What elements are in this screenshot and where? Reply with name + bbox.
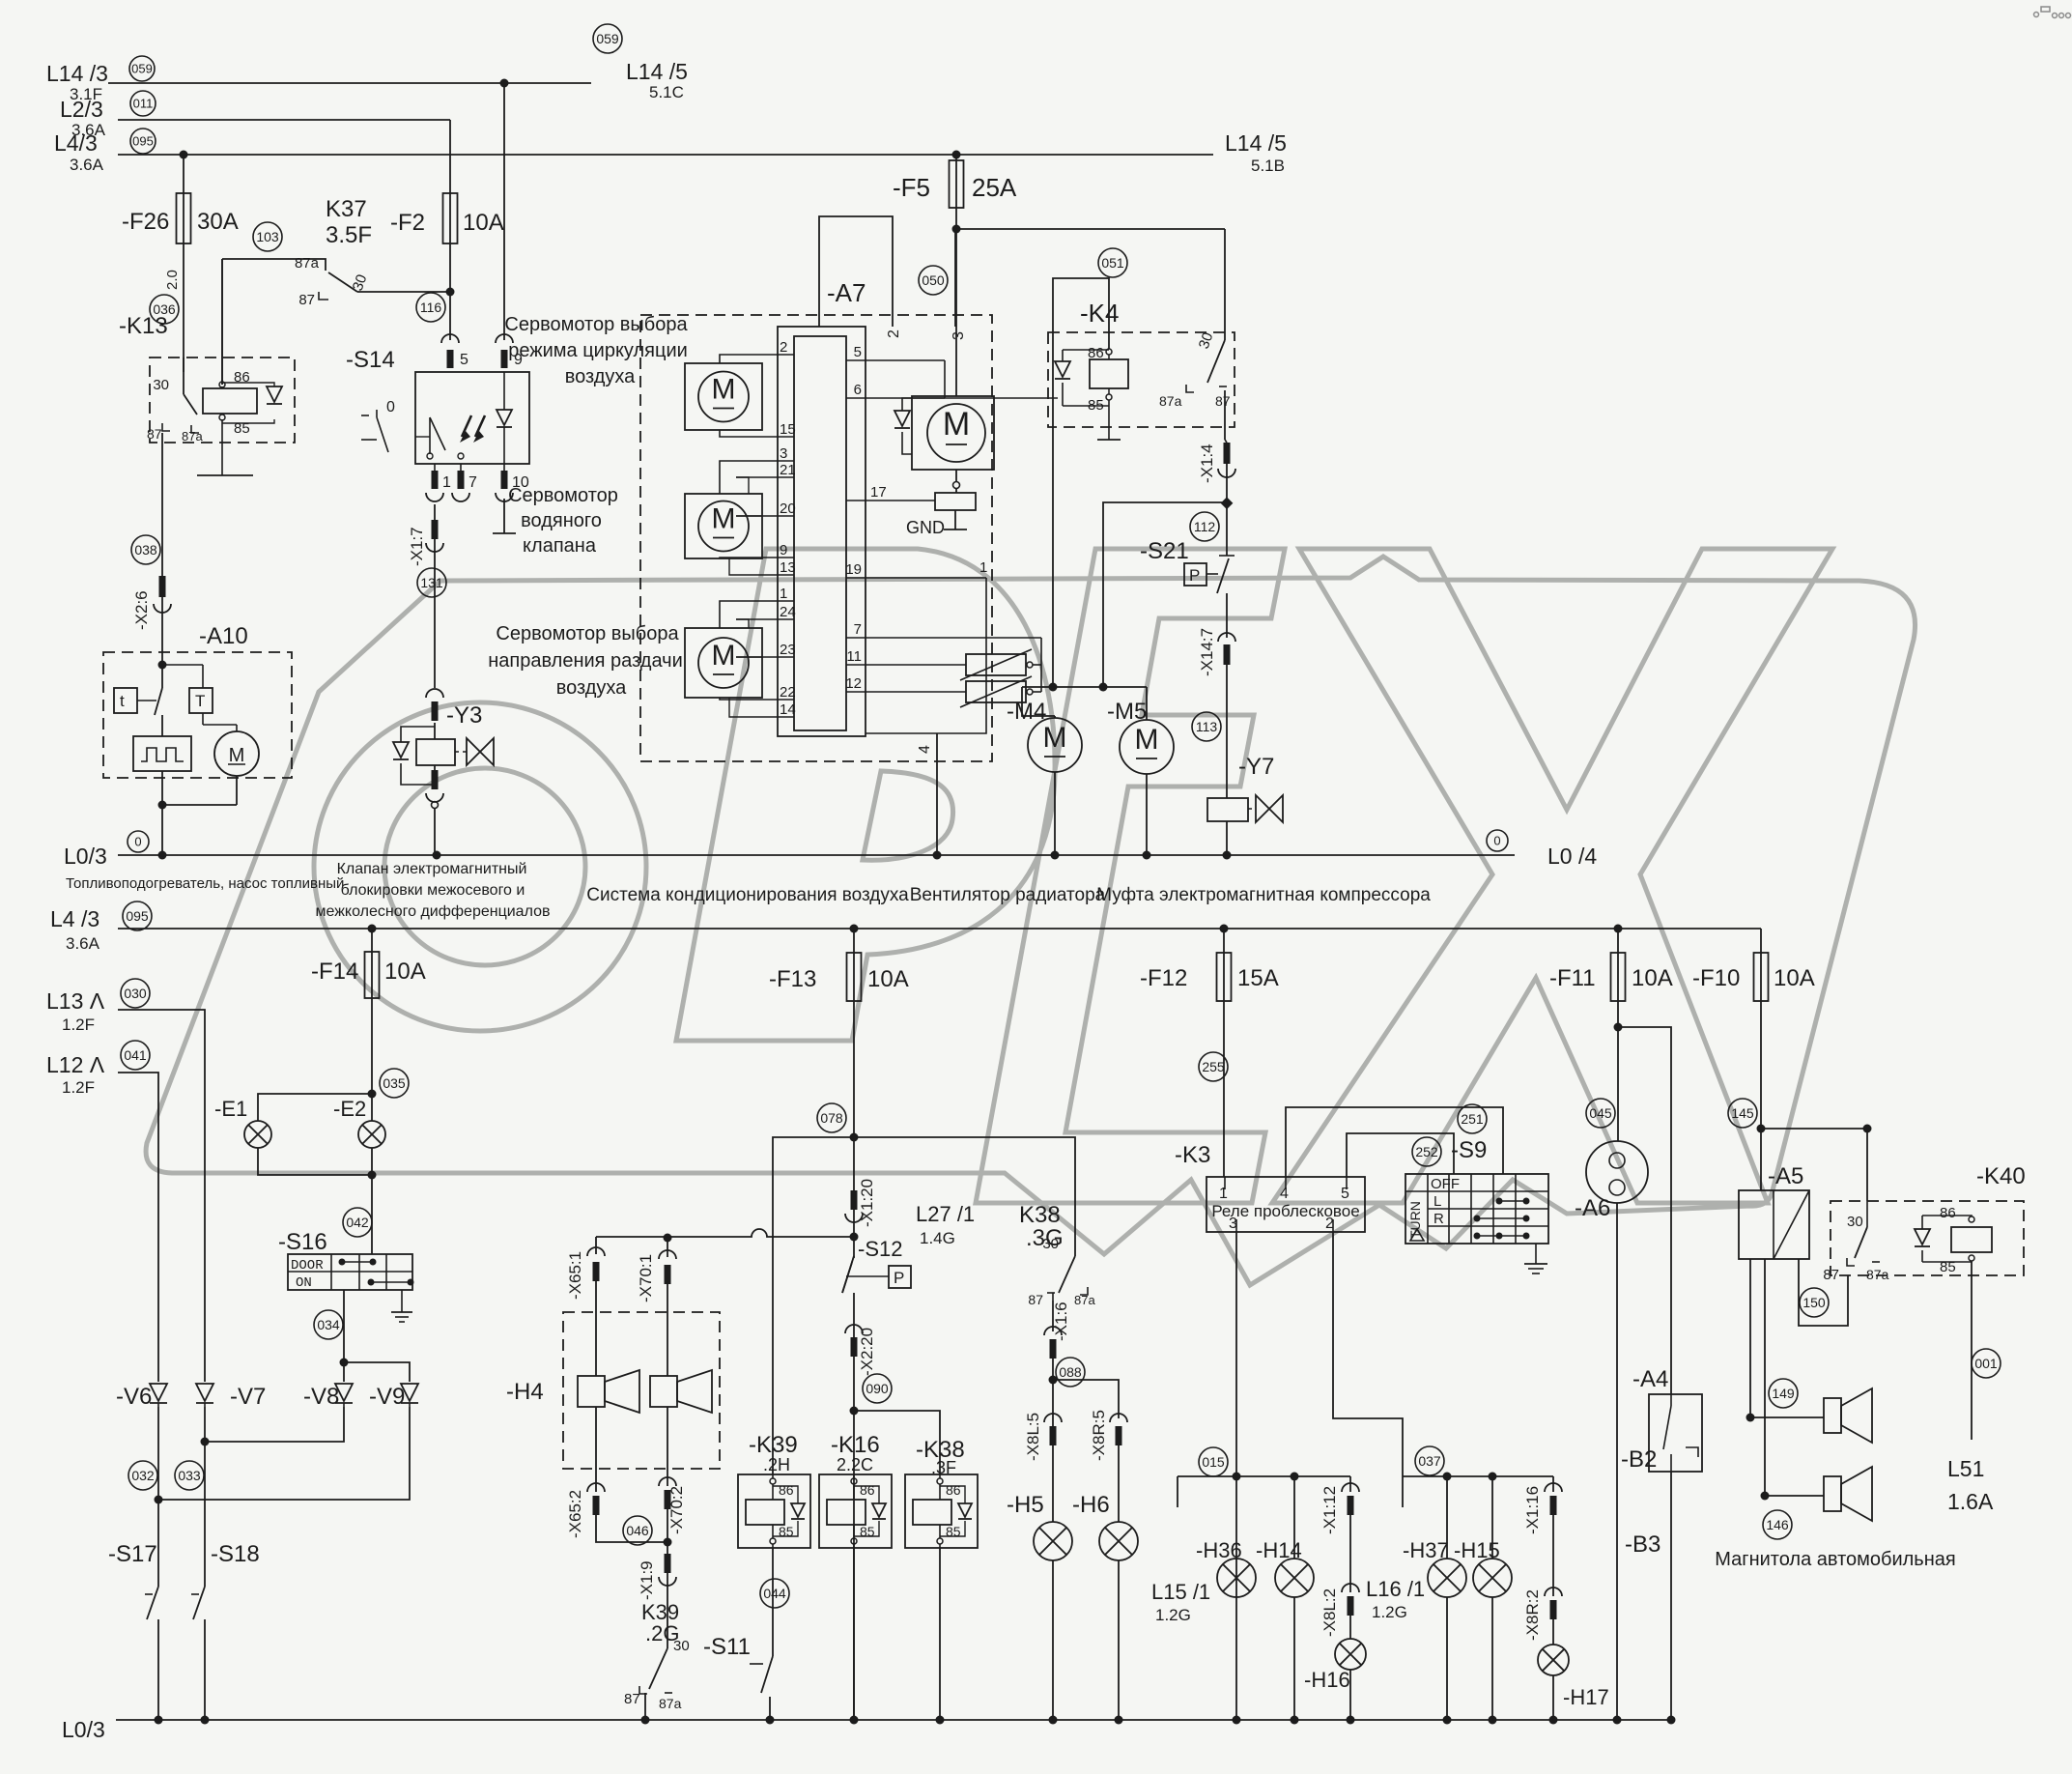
svg-text:L13 Λ: L13 Λ: [46, 988, 105, 1014]
svg-text:R: R: [1433, 1211, 1444, 1227]
svg-text:7: 7: [468, 474, 477, 491]
svg-text:P: P: [894, 1269, 904, 1287]
svg-text:Сервомотор выбора: Сервомотор выбора: [496, 623, 679, 644]
svg-text:.2H: .2H: [763, 1455, 790, 1474]
svg-text:-A10: -A10: [199, 623, 248, 649]
svg-text:-X1:7: -X1:7: [408, 527, 426, 566]
svg-text:K38: K38: [1019, 1202, 1061, 1228]
svg-text:4: 4: [917, 745, 933, 754]
svg-text:-H6: -H6: [1072, 1492, 1110, 1518]
svg-text:045: 045: [1589, 1105, 1612, 1121]
svg-text:-M5: -M5: [1107, 699, 1147, 725]
svg-text:255: 255: [1202, 1059, 1225, 1074]
svg-text:116: 116: [420, 300, 442, 315]
svg-text:095: 095: [126, 908, 149, 924]
svg-text:10A: 10A: [384, 959, 426, 985]
svg-text:-F5: -F5: [893, 173, 930, 202]
svg-text:-X65:1: -X65:1: [566, 1251, 584, 1300]
svg-text:M: M: [1043, 722, 1067, 754]
svg-text:P: P: [1189, 566, 1200, 585]
svg-text:-X65:2: -X65:2: [566, 1490, 584, 1538]
svg-text:4: 4: [1280, 1186, 1289, 1202]
svg-text:1.2G: 1.2G: [1155, 1606, 1191, 1624]
svg-text:-E1: -E1: [214, 1097, 247, 1121]
svg-text:L0/3: L0/3: [64, 844, 107, 869]
svg-text:042: 042: [346, 1215, 369, 1230]
svg-text:87a: 87a: [182, 429, 203, 443]
svg-text:M: M: [712, 374, 736, 406]
svg-text:2.0: 2.0: [164, 270, 181, 290]
svg-text:Клапан электромагнитный: Клапан электромагнитный: [337, 861, 527, 877]
svg-text:87a: 87a: [1074, 1293, 1095, 1307]
svg-text:1.2F: 1.2F: [62, 1016, 95, 1034]
svg-text:059: 059: [596, 31, 619, 46]
svg-text:86: 86: [946, 1482, 961, 1498]
svg-text:87: 87: [624, 1691, 640, 1707]
svg-text:-K39: -K39: [749, 1432, 798, 1458]
svg-text:-X14:7: -X14:7: [1198, 628, 1216, 676]
svg-text:L14 /5: L14 /5: [626, 59, 688, 84]
svg-text:17: 17: [870, 484, 887, 501]
svg-text:030: 030: [124, 986, 147, 1001]
svg-text:015: 015: [1202, 1454, 1225, 1470]
svg-text:L0 /4: L0 /4: [1547, 844, 1597, 869]
svg-text:10A: 10A: [463, 210, 504, 236]
svg-text:Муфта электромагнитная компрес: Муфта электромагнитная компрессора: [1096, 885, 1431, 905]
svg-text:103: 103: [256, 229, 279, 244]
svg-text:-S9: -S9: [1451, 1137, 1487, 1163]
svg-text:251: 251: [1461, 1111, 1484, 1127]
svg-text:L51: L51: [1947, 1456, 1984, 1481]
svg-text:30: 30: [1847, 1214, 1863, 1230]
svg-text:87: 87: [1823, 1267, 1839, 1283]
svg-text:30A: 30A: [197, 209, 239, 235]
svg-text:-X1:12: -X1:12: [1320, 1486, 1339, 1534]
svg-text:19: 19: [845, 561, 862, 578]
svg-text:86: 86: [779, 1482, 794, 1498]
svg-text:5: 5: [854, 344, 862, 360]
svg-text:87: 87: [1028, 1292, 1043, 1307]
svg-text:M: M: [712, 640, 736, 672]
svg-text:033: 033: [178, 1468, 201, 1483]
svg-text:24: 24: [780, 604, 796, 620]
svg-text:-K40: -K40: [1976, 1163, 2026, 1189]
svg-text:11: 11: [846, 648, 862, 665]
svg-text:Вентилятор радиатора: Вентилятор радиатора: [910, 885, 1106, 905]
svg-text:L0/3: L0/3: [62, 1717, 105, 1742]
svg-text:21: 21: [780, 462, 796, 478]
svg-text:-X1:9: -X1:9: [638, 1560, 656, 1600]
svg-text:1: 1: [979, 559, 987, 576]
svg-text:L14 /3: L14 /3: [46, 61, 108, 86]
svg-text:-H16: -H16: [1304, 1668, 1350, 1692]
svg-text:-K16: -K16: [831, 1432, 880, 1458]
svg-text:Топливоподогреватель, насос то: Топливоподогреватель, насос топливный: [66, 875, 344, 892]
svg-text:85: 85: [1088, 397, 1104, 414]
svg-text:86: 86: [1940, 1205, 1956, 1221]
svg-text:15A: 15A: [1237, 965, 1279, 991]
svg-text:-X8R:5: -X8R:5: [1090, 1410, 1108, 1461]
svg-text:-S12: -S12: [858, 1237, 902, 1261]
svg-text:037: 037: [1418, 1453, 1441, 1469]
svg-text:-X2:6: -X2:6: [132, 590, 151, 630]
svg-text:ON: ON: [296, 1275, 312, 1291]
svg-text:L: L: [1433, 1193, 1441, 1210]
svg-text:149: 149: [1772, 1386, 1795, 1401]
svg-text:-H17: -H17: [1563, 1685, 1609, 1709]
svg-text:034: 034: [317, 1317, 340, 1332]
svg-text:095: 095: [132, 134, 154, 149]
svg-text:-H37: -H37: [1403, 1538, 1449, 1562]
svg-text:M: M: [712, 503, 736, 535]
svg-text:051: 051: [1101, 255, 1124, 271]
svg-text:5: 5: [460, 352, 468, 368]
svg-text:-H5: -H5: [1007, 1492, 1044, 1518]
svg-text:клапана: клапана: [523, 535, 597, 557]
svg-text:7: 7: [854, 621, 862, 638]
svg-text:-F12: -F12: [1140, 965, 1187, 991]
svg-text:3: 3: [951, 331, 967, 340]
svg-text:-H4: -H4: [506, 1379, 544, 1405]
svg-text:0: 0: [386, 399, 395, 415]
svg-text:-V8: -V8: [303, 1384, 339, 1410]
svg-text:0: 0: [1493, 834, 1500, 848]
svg-text:направления раздачи: направления раздачи: [488, 650, 683, 672]
svg-text:87a: 87a: [659, 1696, 682, 1711]
svg-text:-X2:20: -X2:20: [858, 1328, 876, 1376]
svg-text:3.6A: 3.6A: [70, 156, 104, 174]
svg-text:6: 6: [854, 382, 862, 398]
svg-text:водяного: водяного: [521, 510, 602, 531]
svg-text:T: T: [195, 692, 205, 710]
svg-text:.3F: .3F: [931, 1458, 956, 1477]
svg-text:87: 87: [1215, 393, 1231, 409]
svg-text:-S16: -S16: [278, 1229, 327, 1255]
svg-text:046: 046: [626, 1523, 649, 1538]
svg-text:9: 9: [780, 542, 787, 558]
svg-text:-F2: -F2: [390, 210, 425, 236]
svg-text:L16 /1: L16 /1: [1366, 1577, 1425, 1601]
svg-text:5.1B: 5.1B: [1251, 157, 1285, 175]
svg-text:035: 035: [383, 1075, 406, 1091]
svg-text:13: 13: [780, 559, 796, 576]
svg-text:Система кондиционирования возд: Система кондиционирования воздуха: [586, 885, 909, 905]
svg-text:12: 12: [845, 675, 862, 692]
svg-text:-B3: -B3: [1625, 1531, 1660, 1558]
svg-text:-X8L:2: -X8L:2: [1320, 1588, 1339, 1637]
svg-text:10A: 10A: [1774, 965, 1815, 991]
svg-text:режима циркуляции: режима циркуляции: [508, 340, 688, 361]
svg-text:-K4: -K4: [1080, 299, 1119, 328]
svg-text:1: 1: [442, 474, 451, 491]
svg-text:воздуха: воздуха: [565, 366, 636, 387]
svg-text:-E2: -E2: [333, 1097, 366, 1121]
svg-text:044: 044: [763, 1586, 786, 1601]
svg-text:001: 001: [1974, 1356, 1998, 1371]
svg-text:L12 Λ: L12 Λ: [46, 1052, 105, 1077]
svg-text:-S11: -S11: [703, 1634, 751, 1660]
svg-text:011: 011: [133, 97, 154, 111]
svg-text:-K13: -K13: [119, 313, 168, 339]
svg-text:-X70:1: -X70:1: [637, 1254, 655, 1302]
svg-text:GND: GND: [906, 518, 945, 537]
svg-text:10A: 10A: [867, 966, 909, 992]
svg-text:30: 30: [1042, 1236, 1059, 1252]
svg-text:t: t: [120, 692, 125, 710]
svg-text:3.5F: 3.5F: [326, 222, 372, 248]
svg-text:-Y3: -Y3: [446, 702, 482, 729]
svg-text:10A: 10A: [1632, 965, 1673, 991]
svg-text:межколесного дифференциалов: межколесного дифференциалов: [316, 903, 551, 920]
svg-text:DOOR: DOOR: [291, 1258, 324, 1273]
svg-text:1: 1: [1219, 1186, 1228, 1202]
svg-text:20: 20: [780, 501, 796, 517]
svg-text:113: 113: [1196, 719, 1218, 734]
svg-text:-S21: -S21: [1140, 538, 1189, 564]
svg-text:23: 23: [780, 642, 796, 658]
svg-text:M: M: [943, 406, 970, 443]
svg-text:-V9: -V9: [369, 1384, 405, 1410]
svg-text:-H14: -H14: [1256, 1538, 1302, 1562]
svg-text:L15 /1: L15 /1: [1151, 1580, 1210, 1604]
svg-text:-K3: -K3: [1175, 1142, 1210, 1168]
svg-text:L14 /5: L14 /5: [1225, 130, 1287, 156]
svg-text:87: 87: [298, 292, 315, 308]
svg-text:-H15: -H15: [1454, 1538, 1500, 1562]
svg-text:OFF: OFF: [1431, 1176, 1460, 1192]
svg-text:L4/3: L4/3: [54, 130, 98, 156]
svg-text:87a: 87a: [1159, 393, 1182, 409]
svg-text:131: 131: [420, 575, 443, 590]
svg-text:0: 0: [134, 835, 141, 849]
svg-text:1.2F: 1.2F: [62, 1078, 95, 1097]
svg-text:3: 3: [780, 445, 787, 462]
svg-text:Сервомотор выбора: Сервомотор выбора: [504, 314, 688, 335]
svg-text:14: 14: [780, 701, 796, 718]
svg-text:L2/3: L2/3: [60, 97, 103, 122]
svg-text:1: 1: [780, 586, 787, 602]
svg-text:041: 041: [124, 1047, 147, 1063]
svg-text:3.6A: 3.6A: [66, 934, 100, 953]
svg-text:5: 5: [1341, 1186, 1349, 1202]
svg-text:-S18: -S18: [211, 1541, 260, 1567]
svg-text:воздуха: воздуха: [556, 677, 627, 699]
svg-text:2.2C: 2.2C: [837, 1455, 873, 1474]
svg-text:30: 30: [153, 377, 169, 393]
svg-text:-A5: -A5: [1768, 1163, 1803, 1189]
svg-text:M: M: [229, 745, 245, 766]
svg-text:050: 050: [922, 272, 945, 288]
svg-text:86: 86: [1088, 345, 1104, 361]
svg-text:15: 15: [780, 421, 796, 438]
svg-text:-X1:16: -X1:16: [1523, 1486, 1542, 1534]
svg-text:-F14: -F14: [311, 959, 358, 985]
svg-text:-A6: -A6: [1575, 1195, 1610, 1221]
svg-text:088: 088: [1059, 1364, 1082, 1380]
svg-text:1.6A: 1.6A: [1947, 1489, 1994, 1514]
svg-text:146: 146: [1766, 1517, 1789, 1532]
svg-text:-X8R:2: -X8R:2: [1523, 1589, 1542, 1641]
svg-text:145: 145: [1731, 1105, 1754, 1121]
svg-text:090: 090: [866, 1381, 889, 1396]
svg-text:блокировки межосевого и: блокировки межосевого и: [341, 882, 525, 899]
svg-text:-V6: -V6: [116, 1384, 152, 1410]
svg-text:1.2G: 1.2G: [1372, 1603, 1407, 1621]
svg-text:-M4: -M4: [1007, 699, 1046, 725]
svg-text:85: 85: [1940, 1259, 1956, 1275]
svg-text:L4 /3: L4 /3: [50, 906, 99, 931]
svg-text:87a: 87a: [295, 255, 320, 272]
svg-text:-A7: -A7: [827, 278, 866, 307]
svg-text:Сервомотор: Сервомотор: [508, 485, 618, 506]
svg-text:078: 078: [820, 1110, 843, 1126]
svg-text:86: 86: [860, 1482, 875, 1498]
svg-text:30: 30: [673, 1638, 690, 1654]
svg-text:059: 059: [131, 62, 153, 76]
svg-text:Магнитола автомобильная: Магнитола автомобильная: [1715, 1549, 1955, 1570]
svg-text:-X1:6: -X1:6: [1052, 1302, 1070, 1341]
svg-text:-X70:2: -X70:2: [667, 1486, 686, 1534]
svg-text:032: 032: [131, 1468, 155, 1483]
svg-text:2: 2: [780, 339, 787, 356]
svg-text:1.4G: 1.4G: [920, 1229, 955, 1247]
svg-text:-F11: -F11: [1549, 965, 1596, 991]
svg-text:-B2: -B2: [1621, 1446, 1657, 1473]
svg-text:87: 87: [147, 426, 162, 442]
svg-text:2: 2: [886, 329, 902, 338]
svg-text:-S17: -S17: [108, 1541, 157, 1567]
svg-text:-F13: -F13: [769, 966, 816, 992]
svg-text:-A4: -A4: [1632, 1366, 1668, 1392]
svg-text:-H36: -H36: [1196, 1538, 1242, 1562]
svg-text:-F26: -F26: [122, 209, 169, 235]
svg-text:-S14: -S14: [346, 347, 395, 373]
svg-text:-F10: -F10: [1692, 965, 1740, 991]
svg-text:150: 150: [1802, 1295, 1826, 1310]
svg-text:252: 252: [1415, 1144, 1438, 1159]
svg-text:M: M: [1135, 724, 1159, 756]
svg-text:-V7: -V7: [230, 1384, 266, 1410]
svg-text:22: 22: [780, 684, 796, 701]
svg-text:87a: 87a: [1866, 1267, 1889, 1282]
svg-text:-X1:4: -X1:4: [1198, 443, 1216, 483]
svg-text:-X8L:5: -X8L:5: [1024, 1413, 1042, 1461]
svg-text:L27 /1: L27 /1: [916, 1202, 975, 1226]
svg-text:038: 038: [134, 542, 157, 558]
svg-text:K37: K37: [326, 196, 367, 222]
svg-text:25A: 25A: [972, 173, 1017, 202]
svg-text:-Y7: -Y7: [1238, 754, 1274, 780]
svg-text:112: 112: [1194, 519, 1216, 534]
svg-text:5.1C: 5.1C: [649, 83, 684, 101]
